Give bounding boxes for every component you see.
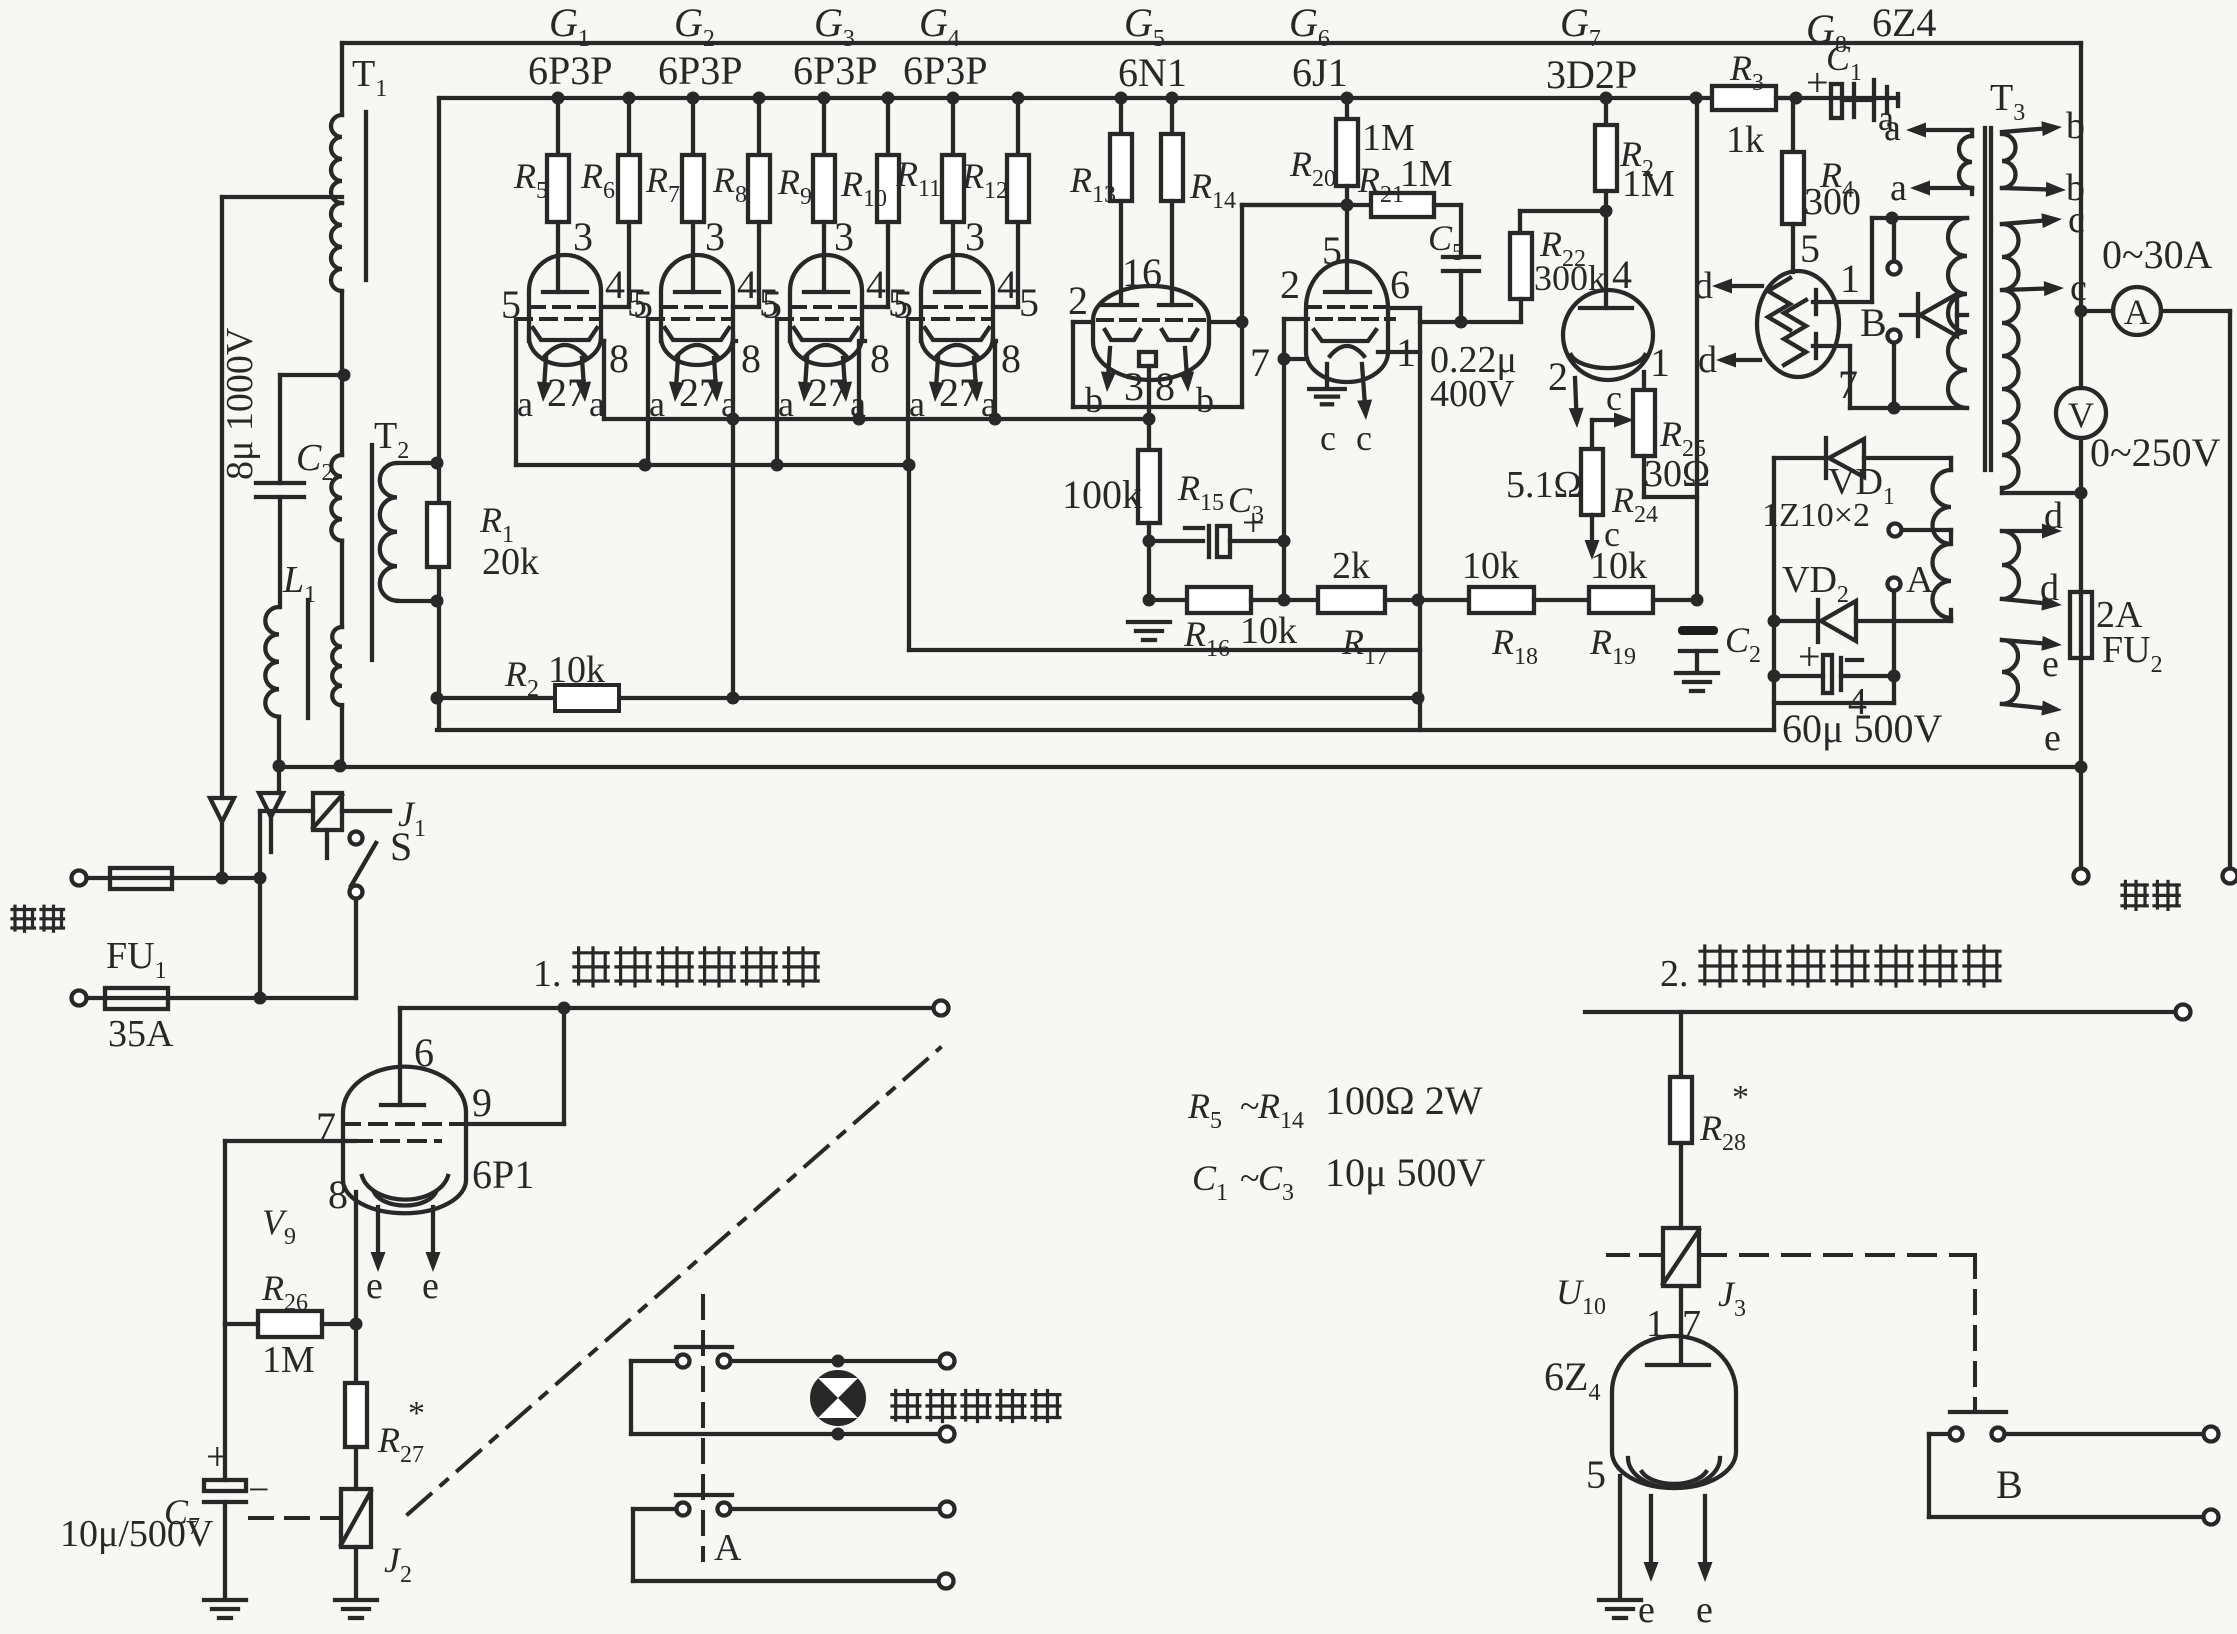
svg-text:c: c [1604, 514, 1620, 554]
svg-text:30Ω: 30Ω [1644, 453, 1710, 495]
svg-text:1M: 1M [1622, 163, 1675, 205]
svg-text:8: 8 [1155, 364, 1175, 409]
svg-text:3: 3 [1124, 364, 1144, 409]
svg-text:a: a [517, 384, 533, 424]
svg-text:e: e [2044, 717, 2061, 759]
svg-text:e: e [366, 1265, 383, 1307]
svg-text:3: 3 [965, 214, 985, 259]
svg-text:4: 4 [997, 262, 1017, 307]
svg-text:5: 5 [1586, 1452, 1606, 1497]
svg-text:c: c [1606, 378, 1622, 418]
svg-text:8: 8 [870, 336, 890, 381]
svg-text:A: A [2124, 292, 2150, 332]
svg-text:A: A [1906, 559, 1934, 601]
svg-text:A: A [714, 1527, 742, 1569]
svg-text:b: b [2066, 105, 2085, 147]
svg-text:5: 5 [1322, 228, 1342, 273]
svg-text:e: e [1696, 1589, 1713, 1629]
svg-text:4: 4 [1612, 252, 1632, 297]
svg-text:2k: 2k [1332, 545, 1370, 587]
svg-text:*: * [408, 1395, 425, 1432]
svg-text:e: e [2042, 643, 2059, 685]
svg-text:0~30A: 0~30A [2102, 232, 2213, 277]
svg-text:d: d [1698, 339, 1717, 381]
svg-text:d: d [1694, 265, 1713, 307]
svg-text:c: c [2068, 199, 2085, 241]
svg-text:100k: 100k [1062, 472, 1142, 517]
svg-text:1k: 1k [1726, 119, 1764, 161]
svg-text:5.1Ω: 5.1Ω [1506, 464, 1582, 506]
svg-text:−: − [248, 1469, 269, 1511]
svg-text:1M: 1M [1400, 153, 1453, 195]
svg-text:35A: 35A [108, 1013, 174, 1055]
svg-text:3: 3 [573, 214, 593, 259]
svg-text:6N1: 6N1 [1118, 50, 1187, 95]
svg-text:6P3P: 6P3P [793, 48, 878, 93]
svg-text:6J1: 6J1 [1292, 50, 1348, 95]
svg-text:10k: 10k [1240, 610, 1297, 652]
svg-text:6P3P: 6P3P [528, 48, 613, 93]
svg-text:2: 2 [1548, 354, 1568, 399]
svg-text:300: 300 [1804, 181, 1861, 223]
svg-text:c: c [1356, 418, 1372, 458]
svg-text:5: 5 [1019, 280, 1039, 325]
svg-text:5: 5 [1800, 226, 1820, 271]
svg-text:6Z4: 6Z4 [1872, 0, 1936, 45]
svg-text:4: 4 [737, 262, 757, 307]
svg-text:B: B [1996, 1462, 2023, 1507]
svg-text:B: B [1860, 300, 1887, 345]
svg-text:1M: 1M [262, 1339, 315, 1381]
svg-text:7: 7 [1250, 340, 1270, 385]
svg-text:b: b [1196, 380, 1214, 420]
svg-text:a: a [1884, 107, 1901, 149]
svg-text:+: + [1798, 634, 1821, 679]
svg-text:6P1: 6P1 [472, 1152, 534, 1197]
svg-text:8: 8 [741, 336, 761, 381]
svg-text:5: 5 [501, 282, 521, 327]
svg-text:a: a [1890, 167, 1907, 209]
svg-text:3: 3 [834, 214, 854, 259]
svg-text:6: 6 [1390, 262, 1410, 307]
svg-text:d: d [2040, 567, 2059, 609]
svg-text:10μ 500V: 10μ 500V [1325, 1150, 1485, 1195]
svg-text:V: V [2068, 395, 2094, 435]
svg-text:S: S [390, 824, 412, 869]
svg-text:16: 16 [1122, 250, 1162, 295]
svg-text:20k: 20k [482, 541, 539, 583]
svg-text:8: 8 [328, 1172, 348, 1217]
svg-text:3: 3 [705, 214, 725, 259]
svg-text:10k: 10k [1462, 545, 1519, 587]
svg-text:7: 7 [316, 1104, 336, 1149]
svg-text:4: 4 [605, 262, 625, 307]
svg-text:e: e [1638, 1589, 1655, 1629]
svg-text:e: e [422, 1265, 439, 1307]
svg-text:27: 27 [939, 370, 979, 415]
svg-text:6P3P: 6P3P [903, 48, 988, 93]
svg-text:27: 27 [808, 370, 848, 415]
svg-text:4: 4 [866, 262, 886, 307]
svg-text:5: 5 [633, 282, 653, 327]
svg-text:+: + [1242, 500, 1265, 545]
svg-text:1: 1 [1840, 256, 1860, 301]
svg-text:0~250V: 0~250V [2090, 430, 2221, 475]
svg-text:~: ~ [1240, 1158, 1259, 1198]
svg-text:b: b [1085, 380, 1103, 420]
svg-text:1: 1 [1650, 340, 1670, 385]
svg-text:3D2P: 3D2P [1546, 52, 1637, 97]
svg-text:5: 5 [893, 282, 913, 327]
svg-text:6P3P: 6P3P [658, 48, 743, 93]
svg-text:27: 27 [547, 370, 587, 415]
svg-text:8: 8 [609, 336, 629, 381]
svg-text:8: 8 [1001, 336, 1021, 381]
svg-text:~: ~ [1240, 1086, 1259, 1126]
svg-text:60μ 500V: 60μ 500V [1782, 706, 1942, 751]
svg-text:27: 27 [679, 370, 719, 415]
svg-text:2: 2 [1068, 278, 1088, 323]
svg-text:9: 9 [472, 1080, 492, 1125]
svg-text:+: + [206, 1434, 229, 1479]
svg-text:10μ/500V: 10μ/500V [60, 1513, 214, 1555]
svg-text:c: c [1320, 418, 1336, 458]
svg-text:400V: 400V [1430, 373, 1515, 415]
svg-text:8μ 1000V: 8μ 1000V [219, 327, 261, 480]
svg-text:100Ω 2W: 100Ω 2W [1325, 1078, 1483, 1123]
svg-text:10k: 10k [548, 649, 605, 691]
svg-text:1.: 1. [533, 953, 562, 995]
svg-text:2.: 2. [1660, 953, 1689, 995]
svg-text:d: d [2044, 495, 2063, 537]
svg-text:2: 2 [1280, 262, 1300, 307]
svg-text:1Z10×2: 1Z10×2 [1762, 497, 1870, 534]
svg-text:*: * [1732, 1079, 1749, 1116]
svg-text:c: c [2070, 267, 2087, 309]
svg-text:5: 5 [762, 282, 782, 327]
